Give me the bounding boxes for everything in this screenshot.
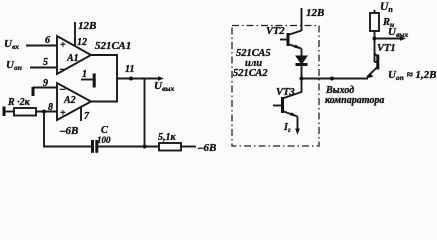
svg-text:VT3: VT3: [276, 87, 295, 98]
svg-text:VT1: VT1: [377, 43, 396, 54]
resistor 5,1к: [159, 143, 181, 151]
wire to -6В: [181, 146, 196, 148]
wire Rн to VT1: [374, 31, 376, 62]
svg-text:R ·2к: R ·2к: [7, 97, 31, 108]
arrow output Uвых: [158, 76, 164, 81]
svg-text:8: 8: [48, 102, 53, 113]
node output terminal: [330, 77, 334, 81]
node comparator output: [300, 77, 304, 81]
node Uвых tap: [373, 37, 377, 41]
wire output pin 11: [117, 78, 161, 80]
svg-text:1: 1: [82, 69, 87, 80]
svg-text:VT2: VT2: [266, 26, 285, 37]
svg-text:А2: А2: [63, 95, 76, 106]
wire to resistor R: [4, 111, 14, 113]
svg-text:Uоп ≈ 1,2В: Uоп ≈ 1,2В: [388, 69, 437, 82]
wire supply pin 12: [74, 22, 76, 46]
node junction pin 11: [129, 77, 133, 81]
node junction pin 8: [42, 110, 46, 114]
dashed IC boundary 521СА5: [232, 26, 319, 147]
wire Uвых arrow right: [375, 38, 404, 40]
arrowhead Uвых right: [400, 36, 406, 41]
svg-text:компаратора: компаратора: [325, 95, 384, 106]
terminal tick pin 9: [32, 87, 35, 96]
strobe input pin 1: [81, 74, 94, 88]
wire from Uп: [374, 10, 376, 13]
svg-text:12В: 12В: [78, 20, 96, 32]
svg-text:+: +: [60, 108, 66, 119]
wire input pin 9: [33, 87, 57, 89]
svg-text:6: 6: [45, 35, 50, 46]
terminal input R: [3, 107, 6, 117]
resistor Rн: [370, 13, 379, 31]
svg-text:–6В: –6В: [197, 142, 216, 153]
wire down from pin 8 node to bottom rail: [44, 112, 92, 147]
node junction bottom rail: [143, 145, 147, 149]
wire supply pin 7: [80, 107, 82, 121]
wire output rail right circuit: [302, 78, 369, 80]
svg-text:А1: А1: [66, 53, 79, 64]
wire output combiner loop: [91, 55, 117, 102]
svg-text:12В: 12В: [306, 7, 324, 19]
svg-text:5: 5: [43, 57, 48, 68]
svg-text:100: 100: [97, 135, 111, 145]
wire supply 12В right: [301, 8, 303, 31]
svg-text:521СА2: 521СА2: [233, 68, 268, 79]
op-amp A2: [57, 83, 91, 120]
svg-text:12: 12: [77, 37, 87, 48]
svg-text:–6В: –6В: [59, 125, 78, 137]
svg-text:–: –: [59, 63, 66, 75]
svg-text:+: +: [60, 40, 66, 51]
transistor VT2: [280, 31, 302, 57]
transistor VT1: [367, 54, 378, 79]
wire input pin 6: [26, 45, 57, 47]
wire input pin 5: [30, 67, 57, 69]
svg-text:9: 9: [43, 78, 48, 89]
capacitor C 100: [93, 140, 97, 153]
op-amp A1: [57, 36, 91, 75]
diode VD: [296, 56, 308, 79]
svg-text:11: 11: [125, 64, 134, 75]
resistor R 2к: [14, 108, 36, 116]
wire bottom rail: [97, 146, 159, 148]
transistor VT3: [273, 79, 302, 136]
svg-text:521СА1: 521СА1: [95, 40, 131, 52]
svg-text:–: –: [59, 83, 66, 95]
svg-text:5,1к: 5,1к: [158, 132, 177, 143]
wire pin 8: [36, 111, 57, 113]
wire from output down to bottom rail: [144, 79, 146, 147]
